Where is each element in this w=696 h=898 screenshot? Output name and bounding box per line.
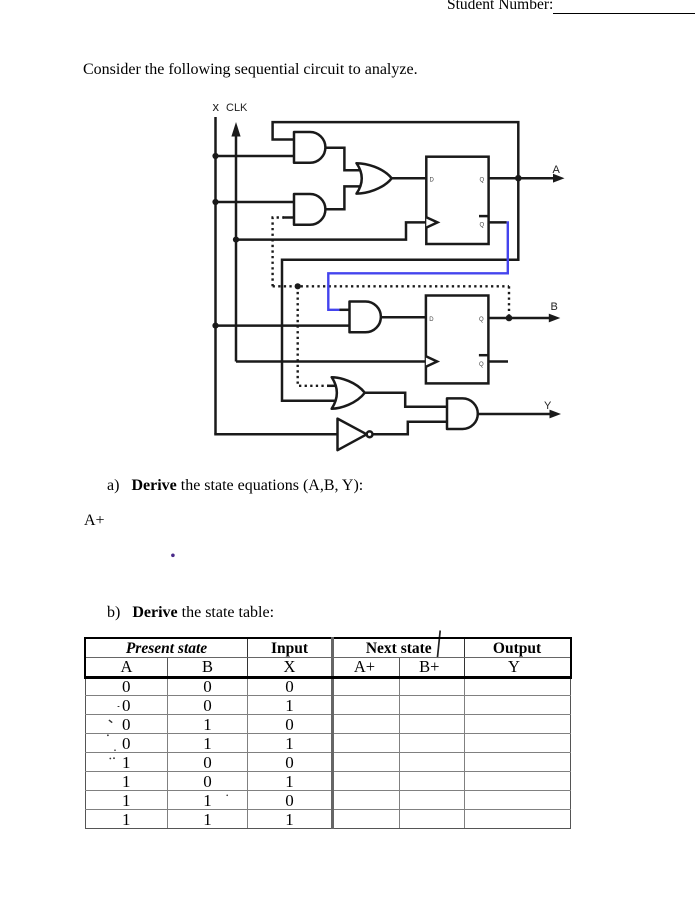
or-gate OR1: [357, 163, 392, 193]
flip-flop FF2: [426, 296, 489, 384]
junction dotted net: [295, 283, 301, 289]
flip-flop FF1: [426, 157, 488, 244]
svg-text:x: x: [213, 99, 220, 114]
junction CLK-FF1: [233, 237, 239, 243]
junction X-AND3: [212, 323, 218, 329]
wire X to AND1: [216, 155, 295, 158]
svg-text:Q: Q: [479, 317, 484, 323]
wire AND1 output to OR1: [326, 148, 363, 171]
wire X to AND2: [216, 201, 295, 204]
svg-text:A: A: [553, 164, 561, 176]
wire dotted B feedback horizontal: [273, 285, 509, 287]
node CLK input line: [235, 136, 238, 362]
svg-text:CLK: CLK: [226, 102, 248, 114]
junction B node: [506, 315, 513, 322]
flip-flop FF2 pin labels: [429, 317, 484, 368]
and-gate AND4: [447, 398, 478, 429]
junction X-AND1: [212, 153, 218, 159]
arrowhead B output: [549, 314, 561, 323]
junction X-AND2: [212, 199, 218, 205]
wire A feedback top to AND1: [273, 122, 519, 178]
wire CLK to FF2 clock: [236, 360, 426, 363]
state table: [84, 637, 572, 829]
svg-text:Q: Q: [479, 362, 484, 368]
arrowhead A output: [553, 174, 565, 183]
stray purple dot: [171, 554, 175, 558]
wire A feedback down to OR2: [282, 178, 518, 401]
wire AND4 output to Y: [477, 413, 551, 416]
wire OR1 output to FF1 D: [392, 177, 427, 180]
label CLK: [226, 102, 248, 114]
wire X to NOT1: [216, 433, 338, 434]
wire AND3 output to FF2 D: [381, 316, 426, 319]
node X input line: [214, 117, 217, 434]
label Y: [544, 400, 552, 412]
arrowhead Y output: [550, 410, 562, 419]
A+: [84, 512, 105, 530]
label A: [553, 164, 561, 176]
wire FF1 Q to output A: [489, 177, 554, 180]
wire solid tail into OR2: [327, 385, 337, 388]
wire solid tail into AND2: [283, 216, 294, 219]
flip-flop FF1 pin labels: [430, 178, 485, 229]
handwritten slash mark over table header: [437, 631, 440, 659]
junction A node: [515, 175, 522, 182]
svg-text:B: B: [551, 301, 558, 313]
wire dotted B feedback to OR2: [298, 286, 330, 386]
wire dotted B feedback to AND2: [273, 218, 284, 287]
svg-text:D: D: [429, 317, 434, 323]
stray pen marks in table: [107, 706, 228, 796]
and-gate AND3: [350, 302, 381, 333]
and-gate AND1: [294, 132, 325, 163]
wire dotted B feedback down to B node: [508, 286, 510, 316]
wire FF2 Qbar stub: [488, 360, 508, 363]
wire black tail into AND3: [340, 309, 350, 312]
wire FF1 Qbar stub: [489, 221, 507, 224]
wire CLK to FF1 clock: [236, 222, 426, 239]
question b: [107, 604, 274, 622]
wire X to AND3: [216, 324, 350, 327]
not-gate NOT1 triangle: [338, 419, 373, 451]
title: [83, 61, 418, 79]
arrowhead CLK up: [231, 122, 240, 137]
wire blue FF1 Qbar to AND3: [328, 222, 508, 309]
question a: [107, 477, 363, 495]
wire OR2 output to AND4: [365, 393, 447, 407]
svg-text:Q: Q: [480, 223, 485, 229]
and-gate AND2: [294, 194, 325, 225]
wire FF2 Q to output B: [488, 317, 550, 320]
svg-text:Y: Y: [544, 400, 552, 412]
svg-text:Q: Q: [480, 178, 485, 184]
wire NOT1 output to AND4: [372, 422, 447, 435]
wire AND2 output to OR1: [326, 186, 363, 209]
label B: [551, 301, 558, 313]
label X: [213, 99, 220, 114]
header: Student Number line: [447, 0, 553, 14]
svg-text:D: D: [430, 178, 435, 184]
or-gate OR2: [332, 377, 365, 409]
